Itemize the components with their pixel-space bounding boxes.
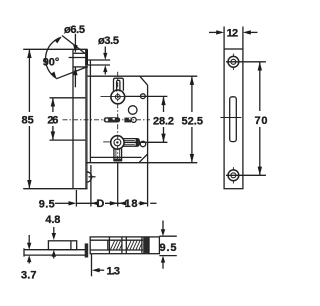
svg-text:ø6.5: ø6.5 (64, 24, 85, 36)
ext line case front (90, 165, 92, 207)
bottom view case inner bottom line (90, 249, 143, 251)
dim 12 right arrow shaft (248, 31, 258, 33)
85 bottom arrow (27, 180, 31, 189)
svg-text:4.8: 4.8 (45, 214, 60, 226)
dim 4.8 upper arrow shaft (53, 227, 55, 235)
chain line segment 9.5-D (76, 202, 96, 204)
dim 12 left extension (223, 27, 225, 50)
52.5 top arrow (190, 76, 194, 85)
dim 28.2 line upper segment (163, 96, 165, 112)
bottom view case inner top line (90, 239, 143, 241)
middle circle (128, 106, 137, 115)
arc top arrowhead (55, 37, 62, 43)
52.5 bottom arrow (190, 154, 194, 163)
bottom view faceplate dark bar (85, 243, 89, 257)
dim 52.5 line upper segment (191, 76, 193, 112)
bottom view plate bottom line (24, 254, 85, 256)
key right notch white (129, 118, 131, 120)
svg-text:52.5: 52.5 (182, 115, 204, 127)
dim 85 line upper segment (28, 49, 30, 112)
dim 9.5 bottom bottom ext bar (159, 255, 176, 257)
chain arrow at 146.9 pointing right (140, 201, 148, 205)
countersink inner line (69, 57, 86, 59)
70 bottom arrow (258, 167, 262, 176)
slot rounded rect (230, 97, 237, 142)
o3.5 dim upper shaft (104, 47, 106, 56)
svg-text:9.5: 9.5 (39, 199, 55, 211)
small circle bottom right (140, 141, 145, 146)
o6.5 leader arrow up (73, 67, 77, 75)
bottom screw circles (228, 170, 239, 181)
chain arrow at 76.4 (69, 201, 77, 205)
key right body (124, 118, 131, 123)
bottom view plate top line (24, 249, 85, 251)
o3.5 dim lower shaft (104, 70, 106, 75)
chain trailing dash (150, 202, 156, 204)
lower spindle leg outer (113, 149, 115, 162)
dim 52.5 line lower segment (191, 127, 193, 163)
70 top arrow (258, 62, 262, 71)
dim 70 line upper segment (259, 62, 261, 111)
arrowheads (27, 30, 262, 272)
12 left arrow (216, 30, 224, 34)
countersink mouth bottom line (73, 66, 88, 68)
lower spindle right arm inner lines (124, 140, 135, 142)
dim 1.3 extension line (91, 254, 93, 277)
countersink upper cone line (62, 36, 85, 54)
lower spindle leg inner (115, 149, 117, 159)
case top edge + 52.5 extension line (88, 75, 198, 77)
case front edge (89, 60, 91, 163)
arc bottom arrowhead (51, 72, 57, 79)
dim 26 line lower segment (52, 126, 54, 140)
lower spindle foot bar (114, 159, 122, 162)
dim 12 left arrow shaft (209, 31, 219, 33)
28.2 top extension (125, 95, 168, 97)
faceplate front edge (72, 49, 74, 188)
o6.5 leader upper shaft (74, 34, 76, 46)
dim 26 bottom extension (50, 139, 86, 141)
svg-text:18: 18 (125, 198, 138, 210)
lower hub left tick (103, 141, 110, 143)
3.7 arrow down to plate top (27, 243, 31, 250)
key head white dot (105, 119, 108, 122)
svg-text:85: 85 (22, 115, 34, 127)
lower spindle arm end bar (136, 139, 139, 147)
screw notch arc on faceplate (87, 172, 92, 182)
top screw connector to 70 dim (226, 61, 266, 63)
vertical axis extension to dim chain (117, 163, 119, 207)
horizontal centerline dash-dot (63, 119, 151, 121)
28.2 bottom arrow (161, 134, 165, 143)
12 right arrow (243, 30, 251, 34)
case right edge + 18 extension line (147, 85, 149, 206)
3.7 arrow up to plate bottom (27, 255, 31, 262)
upper spindle hub circles (111, 90, 125, 104)
dim 85 line lower segment (28, 126, 30, 189)
85 top arrow (27, 49, 31, 58)
bottom view case outer rect (90, 237, 159, 254)
dim 12 right extension (242, 27, 244, 50)
countersink lower cone line (56, 67, 87, 79)
key notch white (113, 118, 115, 120)
svg-text:28.2: 28.2 (153, 115, 174, 127)
dim 4.8 lower arrow shaft (53, 255, 55, 259)
dim 28.2 line lower segment (163, 127, 165, 142)
dim 1.3 arrow shaft (97, 269, 105, 271)
divider lines (107, 240, 109, 250)
dim 9.5 bottom lower shaft (162, 261, 164, 269)
o6.5 leader lower shaft (74, 67, 76, 87)
bottom view end cap divider (148, 237, 150, 254)
26 top arrow (51, 98, 55, 107)
svg-text:26: 26 (47, 115, 58, 127)
4.8 arrow up (52, 250, 56, 257)
lower spindle right arm outer (123, 139, 140, 147)
chain arrow at 118.5 pointing left (119, 201, 127, 205)
chain arrow at 117.7 pointing right (110, 201, 118, 205)
dim 26 line upper segment (52, 98, 54, 112)
screw notch tick (89, 176, 96, 178)
faceplate top edge + 85 extension line (23, 48, 87, 50)
hatch segment 1 (111, 241, 122, 250)
lower spindle hub circles (111, 136, 124, 149)
28.2 top arrow (161, 96, 165, 105)
1.3 arrow pointing left (92, 268, 100, 272)
bottom screw connector to 70 dim (226, 174, 266, 176)
case top-right bevel (140, 76, 148, 85)
9.5 bottom arrow down (161, 229, 165, 236)
hatch segment 2 (127, 241, 142, 250)
dim 26 top extension (50, 97, 86, 99)
case bottom-right bevel (139, 154, 148, 163)
dim 3.7 lower shaft (28, 260, 30, 264)
svg-text:3.7: 3.7 (21, 270, 37, 282)
o3.5 arrow down (103, 53, 107, 60)
dim 3.7 upper shaft (28, 235, 30, 244)
dim 70 line lower segment (259, 127, 261, 175)
upper spindle shaft inner (117, 80, 120, 91)
svg-text:12: 12 (227, 28, 239, 40)
4.8 arrow down (52, 233, 56, 240)
key cylinder left body (104, 117, 121, 122)
top screw ticks (232, 54, 234, 57)
faceplate back edge (thick) (85, 49, 87, 188)
28.2 bottom extension (124, 141, 167, 143)
bottom view box on plate (48, 241, 76, 250)
o6.5 leader arrow down (73, 45, 77, 53)
dim 9.5 bottom upper shaft (162, 221, 164, 232)
bottom dim chain: 9.5 leader dash (55, 202, 70, 204)
drill hole upper line (88, 59, 111, 61)
case inner bottom line (90, 156, 141, 158)
26 bottom arrow (51, 131, 55, 140)
upper hub left tick (101, 96, 125, 98)
right view plate rect (224, 49, 243, 189)
plate mid tick (220, 117, 241, 119)
upper spindle shaft outer (114, 78, 124, 91)
svg-text:90°: 90° (43, 56, 60, 68)
key end circle (131, 117, 136, 122)
bottom view dark bar right (143, 237, 149, 254)
svg-text:70: 70 (255, 115, 268, 127)
bottom view left cap (23, 248, 25, 256)
case bottom edge + 52.5 extension line (86, 162, 197, 164)
faceplate bottom edge + 85 extension line (23, 188, 87, 190)
chain arrow at 90.9 pointing left (91, 201, 99, 205)
bottom screw ticks (232, 167, 234, 170)
countersunk hole bar (85, 49, 88, 65)
countersink mouth top line (73, 52, 85, 54)
drill hole lower line (88, 64, 111, 66)
small circle top right (141, 94, 146, 99)
svg-text:9.5: 9.5 (160, 242, 177, 254)
90 degree arc (46, 37, 62, 78)
ext line faceplate front (75, 190, 77, 207)
dim 9.5 bottom top ext bar (159, 235, 176, 237)
svg-text:D: D (96, 198, 104, 210)
chain segment 18 right shaft (139, 202, 148, 204)
top screw circles (228, 56, 239, 67)
chain segment D right shaft (105, 202, 124, 204)
vertical spindle axis dash-dot (117, 72, 119, 163)
o3.5 arrow up (103, 65, 107, 72)
svg-text:ø3.5: ø3.5 (98, 35, 119, 47)
svg-text:1.3: 1.3 (107, 266, 121, 278)
9.5 bottom arrow up (161, 256, 165, 263)
chain segment D left arrow shaft (91, 202, 97, 204)
